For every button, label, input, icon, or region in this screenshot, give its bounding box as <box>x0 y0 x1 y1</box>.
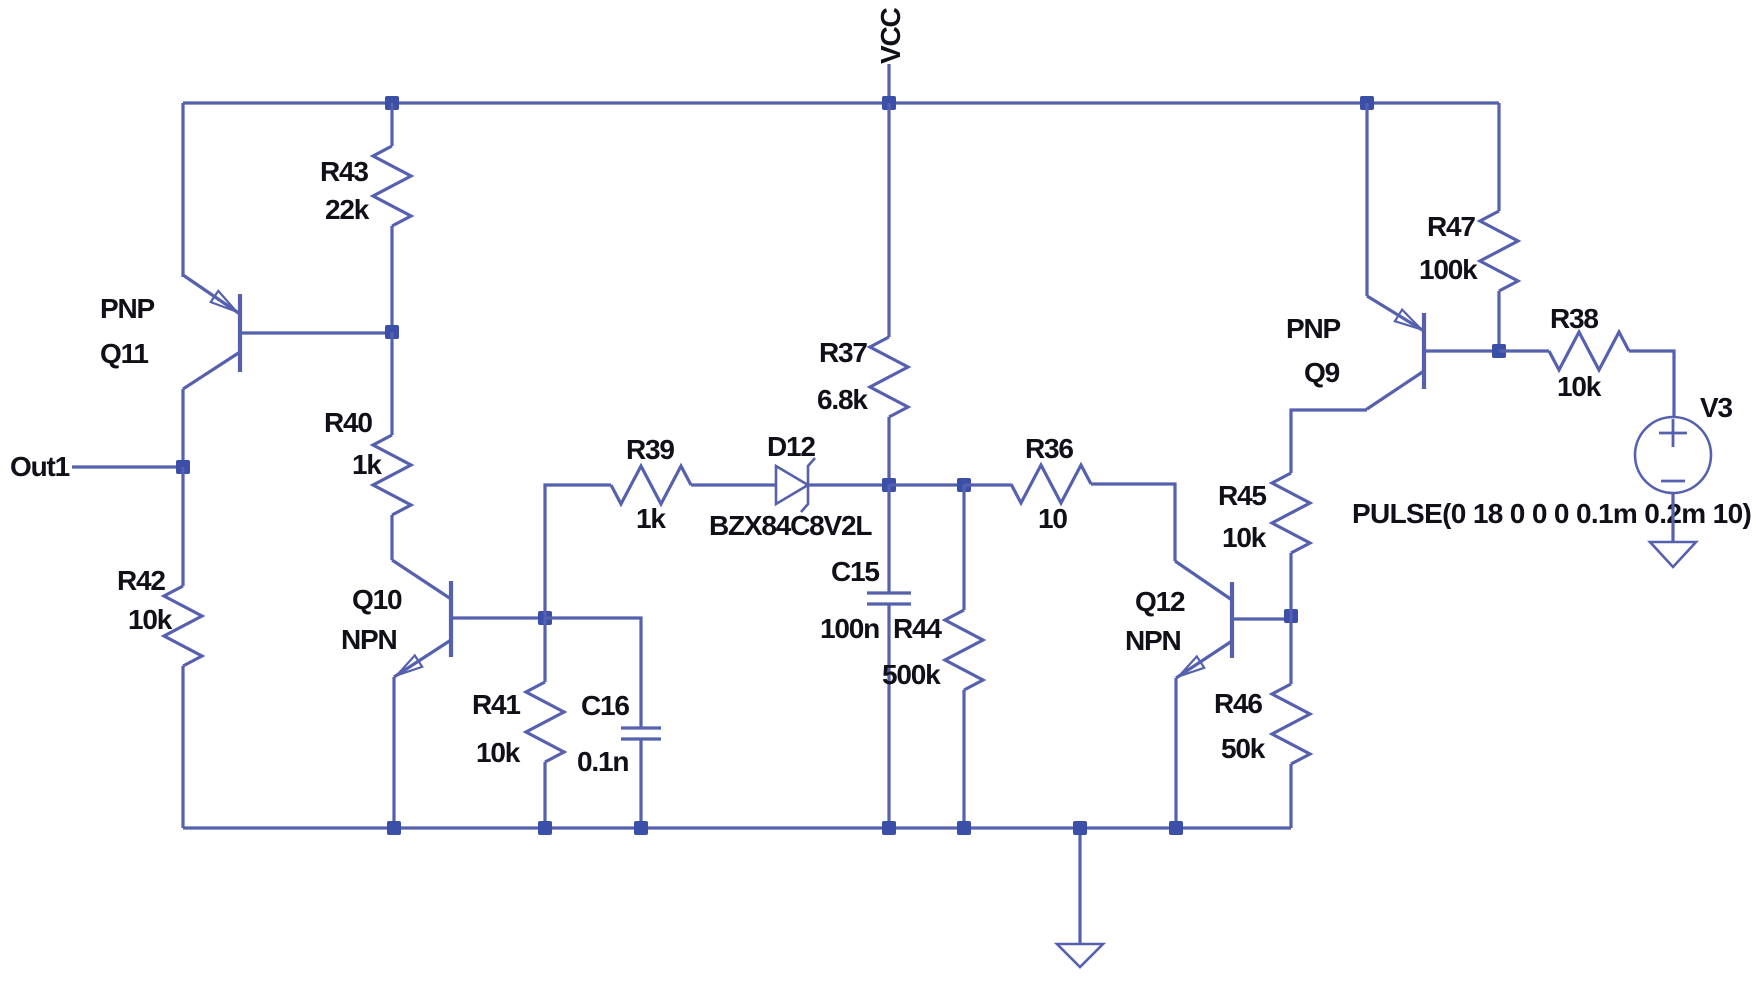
svg-text:BZX84C8V2L: BZX84C8V2L <box>709 510 872 541</box>
resistor R47 zigzag <box>1480 211 1518 291</box>
resistor R46 bottom lead <box>1289 764 1292 828</box>
ground symbol main <box>1057 944 1103 967</box>
node Q12 emitter / ground rail <box>1169 821 1183 835</box>
wire Q10 base node up to R39 <box>545 485 611 618</box>
resistor R43 top lead <box>390 103 393 146</box>
resistor R45 zigzag <box>1272 473 1310 553</box>
capacitor C15 top lead <box>887 485 890 593</box>
resistor R40 zigzag <box>373 435 411 515</box>
voltage source V3 circle <box>1635 417 1711 493</box>
resistor R42 bottom lead <box>181 666 184 828</box>
resistor R39 right lead <box>691 483 776 486</box>
svg-text:22k: 22k <box>325 194 370 225</box>
svg-text:R41: R41 <box>472 689 520 720</box>
svg-text:6.8k: 6.8k <box>817 384 868 415</box>
diode D12 triangle <box>776 466 808 504</box>
svg-text:Out1: Out1 <box>10 451 70 482</box>
node ground stem / rail <box>1073 821 1087 835</box>
resistor R38 left lead <box>1499 349 1549 352</box>
resistor R46 zigzag <box>1272 684 1310 764</box>
transistor Q9 base bar <box>1422 313 1426 389</box>
node Q9 emitter / top rail <box>1360 96 1374 110</box>
voltage source V3 minus sign <box>1661 480 1685 483</box>
node Q9 base / R47 / R38 junction <box>1492 344 1506 358</box>
wire Q11 emitter lead from top rail <box>181 103 184 277</box>
wire bottom ground rail <box>183 826 1291 829</box>
svg-text:R46: R46 <box>1214 688 1262 719</box>
svg-text:10k: 10k <box>476 737 521 768</box>
node Out1 junction <box>176 460 190 474</box>
resistor R42 zigzag <box>164 586 202 666</box>
transistor Q9 emitter diagonal <box>1367 296 1424 331</box>
resistor R44 top lead <box>962 485 965 610</box>
svg-text:C15: C15 <box>831 556 879 587</box>
wire top VCC rail <box>183 101 1499 104</box>
wire ground stem <box>1078 828 1081 944</box>
resistor R37 zigzag <box>870 337 908 417</box>
resistor R45 bottom lead <box>1289 553 1292 616</box>
resistor R38 zigzag <box>1549 332 1629 370</box>
node R41 / ground rail <box>538 821 552 835</box>
wire Q11 collector to Out1 node <box>181 389 184 467</box>
transistor Q12 base bar <box>1230 582 1234 658</box>
capacitor C15 bottom lead <box>887 604 890 828</box>
ground symbol for V3 <box>1650 542 1696 567</box>
node VCC / top rail <box>882 96 896 110</box>
svg-text:50k: 50k <box>1221 733 1266 764</box>
resistor R36 zigzag <box>1011 465 1091 503</box>
resistor R38 right wire to V3 <box>1629 351 1674 417</box>
transistor Q12 emitter diagonal <box>1176 641 1232 678</box>
svg-text:100k: 100k <box>1419 254 1478 285</box>
svg-text:VCC: VCC <box>875 8 906 64</box>
svg-text:PNP: PNP <box>1286 313 1340 344</box>
resistor R41 bottom lead <box>543 762 546 828</box>
svg-text:R44: R44 <box>893 613 942 644</box>
svg-text:R47: R47 <box>1427 211 1475 242</box>
resistor R41 top lead <box>543 618 546 682</box>
transistor Q12 collector diagonal <box>1175 561 1232 600</box>
svg-text:R43: R43 <box>320 156 368 187</box>
resistor R43 zigzag <box>373 146 411 226</box>
wire Q12 emitter lead <box>1174 678 1177 828</box>
node top rail / R43 junction <box>385 96 399 110</box>
transistor Q10 emitter diagonal <box>394 640 451 677</box>
resistor R42 top lead <box>181 467 184 586</box>
wire Q9 emitter lead <box>1365 103 1368 296</box>
svg-text:V3: V3 <box>1700 392 1732 423</box>
svg-text:Q10: Q10 <box>352 584 402 615</box>
node R44 / ground rail <box>957 821 971 835</box>
capacitor C16 top plate <box>621 726 661 729</box>
wire D12 cathode to node <box>808 483 889 486</box>
transistor Q10 collector diagonal <box>392 560 451 599</box>
diode D12 cathode bar with zener hooks <box>801 458 815 512</box>
transistor Q12 emitter arrow (NPN) <box>1179 656 1204 676</box>
svg-text:R40: R40 <box>324 407 372 438</box>
svg-text:R36: R36 <box>1025 433 1073 464</box>
capacitor C16 top wire <box>545 618 641 728</box>
resistor R36 right wire to Q12 <box>1091 484 1175 561</box>
resistor R46 top lead <box>1289 616 1292 684</box>
node C16 / ground rail <box>634 821 648 835</box>
node Q10 base junction <box>538 611 552 625</box>
node Q10 emitter / ground rail <box>387 821 401 835</box>
voltage source V3 plus sign <box>1659 419 1687 447</box>
svg-text:R37: R37 <box>819 337 867 368</box>
wire top rail corner to R47 <box>1497 103 1500 211</box>
resistor R36 left lead <box>964 483 1011 486</box>
node zener/R37/C15 junction <box>882 478 896 492</box>
wire Q9 base lead <box>1424 349 1499 352</box>
wire Q11 base lead <box>240 331 392 334</box>
svg-text:10k: 10k <box>1222 522 1267 553</box>
resistor R44 zigzag <box>945 610 983 690</box>
node R44 top junction <box>957 478 971 492</box>
transistor Q10 base bar <box>449 581 453 657</box>
transistor Q10 emitter arrow (NPN) <box>397 655 422 675</box>
svg-text:PNP: PNP <box>100 293 154 324</box>
transistor Q11 collector diagonal <box>183 352 240 389</box>
svg-text:C16: C16 <box>581 690 629 721</box>
wire Q10 emitter lead <box>392 677 395 828</box>
capacitor C15 bottom plate <box>867 602 911 605</box>
wire V3 bottom lead <box>1671 493 1674 542</box>
svg-text:R39: R39 <box>626 434 674 465</box>
capacitor C16 bottom plate <box>621 737 661 740</box>
resistor R44 bottom lead <box>962 690 965 828</box>
svg-text:R45: R45 <box>1218 480 1266 511</box>
capacitor C15 top plate <box>867 591 911 594</box>
transistor Q11 base bar <box>238 294 242 372</box>
svg-text:NPN: NPN <box>341 624 397 655</box>
svg-text:1k: 1k <box>352 449 382 480</box>
wire VCC stub <box>887 64 890 103</box>
svg-text:Q9: Q9 <box>1304 357 1340 388</box>
svg-text:10k: 10k <box>1557 371 1602 402</box>
svg-text:Q12: Q12 <box>1135 586 1185 617</box>
node Q12 base / R45 / R46 junction <box>1284 609 1298 623</box>
svg-text:1k: 1k <box>636 503 666 534</box>
wire Q12 base lead <box>1232 617 1291 620</box>
svg-text:NPN: NPN <box>1125 625 1181 656</box>
svg-text:R38: R38 <box>1550 303 1598 334</box>
wire Q9 collector elbow to R45 <box>1291 410 1367 473</box>
wire Q10 base lead <box>451 616 545 619</box>
svg-text:Q11: Q11 <box>100 338 148 369</box>
transistor Q9 emitter arrow (PNP) <box>1395 310 1422 330</box>
svg-text:10: 10 <box>1038 503 1067 534</box>
svg-text:0.1n: 0.1n <box>577 746 628 777</box>
svg-text:500k: 500k <box>882 659 941 690</box>
resistor R39 zigzag <box>611 466 691 504</box>
transistor Q11 emitter arrow (PNP) <box>211 291 237 312</box>
svg-text:R42: R42 <box>117 565 165 596</box>
resistor R37 top lead <box>887 103 890 337</box>
svg-text:100n: 100n <box>820 613 879 644</box>
capacitor C16 bottom lead <box>639 739 642 828</box>
resistor R37 bottom lead <box>887 417 890 485</box>
svg-text:PULSE(0 18 0 0 0 0.1m 0.2m 10): PULSE(0 18 0 0 0 0.1m 0.2m 10) <box>1352 498 1751 529</box>
resistor R43 bottom lead <box>390 226 393 332</box>
resistor R40 top lead <box>390 332 393 435</box>
svg-text:D12: D12 <box>767 431 815 462</box>
resistor R47 bottom lead <box>1497 291 1500 351</box>
resistor R41 zigzag <box>526 682 564 762</box>
wire Q10 collector lead <box>390 515 393 560</box>
node C15 / ground rail <box>882 821 896 835</box>
svg-text:10k: 10k <box>128 604 173 635</box>
transistor Q9 collector diagonal <box>1367 371 1424 410</box>
wire zener node to R44 node <box>889 483 964 486</box>
transistor Q11 emitter diagonal <box>183 275 240 314</box>
node R43/R40/Q11 base junction <box>385 325 399 339</box>
wire Out1 stub <box>72 465 183 468</box>
